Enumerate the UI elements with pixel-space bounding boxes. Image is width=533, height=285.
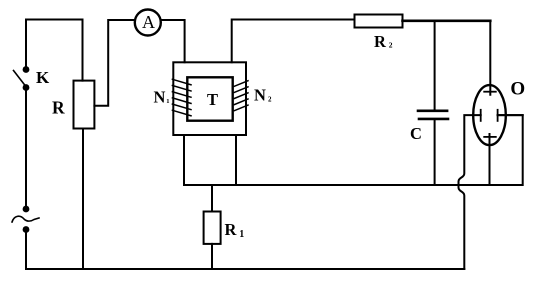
svg-text:C: C — [410, 124, 422, 143]
svg-text:1: 1 — [166, 98, 169, 105]
svg-text:1: 1 — [239, 229, 244, 240]
svg-text:N: N — [254, 85, 266, 104]
svg-text:2: 2 — [268, 96, 272, 104]
svg-text:2: 2 — [389, 41, 393, 50]
svg-text:R: R — [374, 32, 387, 51]
svg-text:N: N — [154, 87, 166, 106]
svg-text:T: T — [207, 90, 218, 109]
svg-text:A: A — [142, 12, 155, 32]
svg-text:K: K — [36, 68, 50, 87]
svg-text:R: R — [52, 98, 65, 118]
svg-text:R: R — [225, 220, 238, 239]
svg-text:O: O — [510, 78, 525, 99]
